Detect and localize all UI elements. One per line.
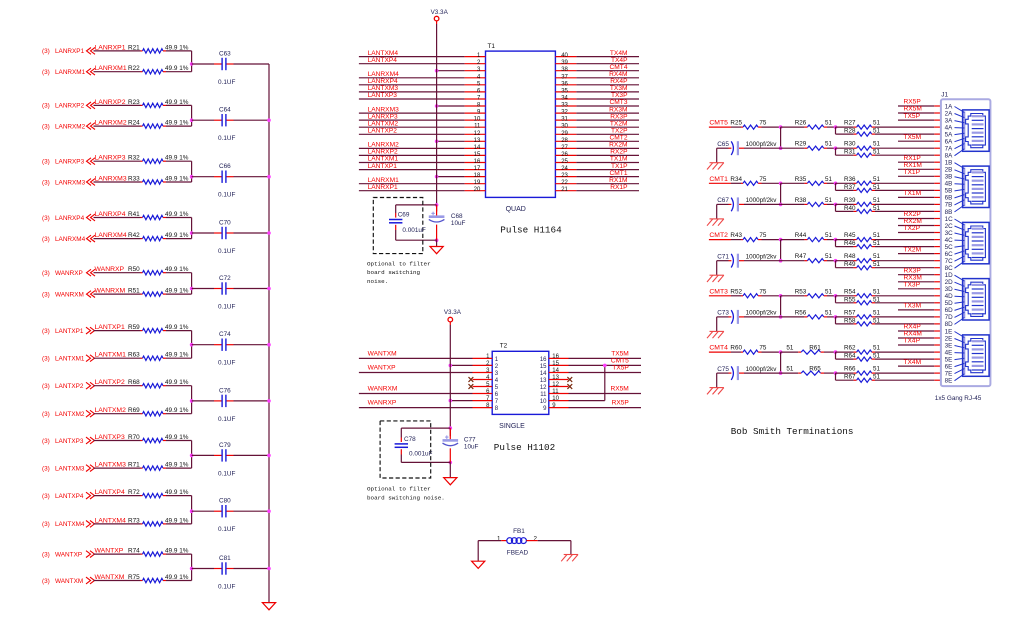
svg-text:2: 2 xyxy=(534,536,538,543)
svg-text:49.9 1%: 49.9 1% xyxy=(165,155,189,162)
svg-text:1D: 1D xyxy=(945,272,954,279)
svg-text:R29: R29 xyxy=(795,141,807,148)
svg-text:R30: R30 xyxy=(844,141,856,148)
svg-text:0.1UF: 0.1UF xyxy=(218,416,235,423)
svg-text:51: 51 xyxy=(873,296,881,303)
svg-text:C73: C73 xyxy=(717,310,729,317)
svg-text:30: 30 xyxy=(561,124,568,130)
svg-text:0.1UF: 0.1UF xyxy=(218,584,235,591)
svg-text:(3): (3) xyxy=(42,103,50,110)
svg-text:21: 21 xyxy=(561,187,568,193)
svg-text:R22: R22 xyxy=(128,65,140,72)
svg-text:49.9 1%: 49.9 1% xyxy=(165,352,189,359)
svg-text:0.1UF: 0.1UF xyxy=(218,526,235,533)
svg-text:TX5M: TX5M xyxy=(904,134,922,141)
svg-text:LANRXM3: LANRXM3 xyxy=(368,106,399,113)
svg-text:0.1UF: 0.1UF xyxy=(218,192,235,199)
svg-text:LANTXM1: LANTXM1 xyxy=(95,352,127,359)
svg-text:LANTXP3: LANTXP3 xyxy=(55,438,84,445)
svg-text:C81: C81 xyxy=(219,555,231,562)
svg-text:51: 51 xyxy=(873,120,881,127)
svg-text:LANTXM3: LANTXM3 xyxy=(368,85,399,92)
svg-text:14: 14 xyxy=(552,368,559,374)
svg-text:R27: R27 xyxy=(844,120,856,127)
svg-text:LANTXM4: LANTXM4 xyxy=(95,517,127,524)
svg-text:49.9 1%: 49.9 1% xyxy=(165,211,189,218)
svg-text:WANRXP: WANRXP xyxy=(95,266,125,273)
svg-text:10: 10 xyxy=(474,117,481,123)
svg-text:LANTXP4: LANTXP4 xyxy=(55,493,84,500)
svg-text:RX5M: RX5M xyxy=(610,386,628,393)
svg-text:49.9 1%: 49.9 1% xyxy=(165,407,189,414)
svg-text:6C: 6C xyxy=(945,251,954,258)
svg-text:TX3P: TX3P xyxy=(904,282,921,289)
svg-text:2C: 2C xyxy=(945,223,954,230)
svg-text:C72: C72 xyxy=(219,275,231,282)
svg-text:1x5 Gang RJ-45: 1x5 Gang RJ-45 xyxy=(935,395,982,402)
svg-text:51: 51 xyxy=(825,197,833,204)
svg-text:10: 10 xyxy=(552,396,559,402)
svg-text:RX4M: RX4M xyxy=(609,71,627,78)
svg-text:R39: R39 xyxy=(844,197,856,204)
svg-text:C77: C77 xyxy=(464,437,476,444)
svg-text:R41: R41 xyxy=(128,211,140,218)
svg-text:31: 31 xyxy=(561,117,568,123)
svg-text:7E: 7E xyxy=(945,370,953,377)
svg-text:R45: R45 xyxy=(844,232,856,239)
svg-text:TX2M: TX2M xyxy=(904,246,922,253)
svg-text:LANTXP3: LANTXP3 xyxy=(95,434,125,441)
svg-text:LANTXM3: LANTXM3 xyxy=(55,465,85,472)
svg-text:R42: R42 xyxy=(128,232,140,239)
svg-text:RX5M: RX5M xyxy=(904,106,922,113)
svg-text:R47: R47 xyxy=(795,253,807,260)
svg-text:R49: R49 xyxy=(844,261,856,268)
svg-text:RX4P: RX4P xyxy=(610,78,628,85)
svg-text:(3): (3) xyxy=(42,521,50,528)
svg-text:TX5P: TX5P xyxy=(904,113,921,120)
svg-text:RX4P: RX4P xyxy=(904,324,922,331)
svg-text:Optional to filter: Optional to filter xyxy=(367,261,431,268)
svg-text:RX3M: RX3M xyxy=(904,274,922,281)
svg-text:LANTXM2: LANTXM2 xyxy=(368,120,399,127)
svg-text:R56: R56 xyxy=(795,309,807,316)
svg-text:R52: R52 xyxy=(730,288,742,295)
svg-text:49.9 1%: 49.9 1% xyxy=(165,517,189,524)
svg-text:7B: 7B xyxy=(945,202,953,209)
svg-text:R51: R51 xyxy=(128,288,140,295)
svg-text:R69: R69 xyxy=(128,407,140,414)
svg-text:14: 14 xyxy=(474,145,481,151)
svg-text:CMT2: CMT2 xyxy=(709,232,728,239)
svg-text:TX2M: TX2M xyxy=(610,120,628,127)
svg-text:(3): (3) xyxy=(42,578,50,585)
svg-text:13: 13 xyxy=(540,378,547,384)
svg-text:49.9 1%: 49.9 1% xyxy=(165,120,189,127)
svg-text:(3): (3) xyxy=(42,48,50,55)
svg-text:75: 75 xyxy=(759,345,767,352)
svg-text:LANTXM2: LANTXM2 xyxy=(95,407,127,414)
svg-text:RX5P: RX5P xyxy=(612,400,630,407)
svg-text:WANTXM: WANTXM xyxy=(368,350,397,357)
svg-text:LANRXM1: LANRXM1 xyxy=(368,177,399,184)
svg-text:Pulse H1164: Pulse H1164 xyxy=(500,225,562,236)
svg-text:75: 75 xyxy=(759,288,767,295)
svg-text:15: 15 xyxy=(474,152,481,158)
svg-text:CMT5: CMT5 xyxy=(611,357,629,364)
svg-text:49.9 1%: 49.9 1% xyxy=(165,548,189,555)
svg-text:51: 51 xyxy=(825,288,833,295)
svg-text:8C: 8C xyxy=(945,265,954,272)
svg-text:R72: R72 xyxy=(128,489,140,496)
svg-text:RX2M: RX2M xyxy=(904,218,922,225)
svg-text:LANTXM3: LANTXM3 xyxy=(95,462,127,469)
svg-text:LANRXP2: LANRXP2 xyxy=(368,149,398,156)
svg-text:LANRXM3: LANRXM3 xyxy=(95,176,127,183)
svg-text:LANTXP2: LANTXP2 xyxy=(55,383,84,390)
svg-text:LANRXM1: LANRXM1 xyxy=(55,69,86,76)
svg-text:51: 51 xyxy=(873,197,881,204)
svg-text:SINGLE: SINGLE xyxy=(499,423,525,430)
svg-text:CMT4: CMT4 xyxy=(709,345,728,352)
svg-text:RX2P: RX2P xyxy=(610,149,628,156)
svg-text:13: 13 xyxy=(552,375,559,381)
svg-text:49.9 1%: 49.9 1% xyxy=(165,288,189,295)
svg-text:TX3M: TX3M xyxy=(610,85,628,92)
svg-text:4B: 4B xyxy=(945,181,953,188)
svg-text:FB1: FB1 xyxy=(513,528,525,535)
svg-text:5A: 5A xyxy=(945,131,954,138)
svg-text:R37: R37 xyxy=(844,184,856,191)
svg-text:(3): (3) xyxy=(42,328,50,335)
svg-text:51: 51 xyxy=(873,205,881,212)
svg-text:TX4M: TX4M xyxy=(904,359,922,366)
svg-text:0.1UF: 0.1UF xyxy=(218,470,235,477)
svg-text:J1: J1 xyxy=(941,92,948,99)
svg-text:1A: 1A xyxy=(945,103,954,110)
svg-text:TX2P: TX2P xyxy=(904,225,921,232)
svg-text:board switching noise.: board switching noise. xyxy=(367,494,445,501)
svg-text:CMT3: CMT3 xyxy=(709,288,728,295)
svg-text:1000pf/2kv: 1000pf/2kv xyxy=(746,197,778,204)
svg-text:1C: 1C xyxy=(945,216,954,223)
svg-text:1000pf/2kv: 1000pf/2kv xyxy=(746,254,778,261)
svg-text:TX5P: TX5P xyxy=(612,365,629,372)
svg-text:R62: R62 xyxy=(844,345,856,352)
svg-text:noise.: noise. xyxy=(367,278,388,285)
svg-text:51: 51 xyxy=(873,374,881,381)
svg-text:WANRXM: WANRXM xyxy=(368,386,398,393)
svg-text:R57: R57 xyxy=(844,309,856,316)
svg-text:51: 51 xyxy=(873,149,881,156)
svg-text:51: 51 xyxy=(873,128,881,135)
svg-text:R25: R25 xyxy=(730,120,742,127)
svg-text:TX3M: TX3M xyxy=(904,303,922,310)
svg-text:6D: 6D xyxy=(945,307,954,314)
svg-text:R23: R23 xyxy=(128,99,140,106)
svg-text:51: 51 xyxy=(873,345,881,352)
svg-text:LANTXP1: LANTXP1 xyxy=(95,324,125,331)
svg-text:36: 36 xyxy=(561,81,568,87)
svg-text:LANTXP2: LANTXP2 xyxy=(95,379,125,386)
svg-text:LANRXP3: LANRXP3 xyxy=(55,159,85,166)
svg-text:R43: R43 xyxy=(730,232,742,239)
svg-text:1E: 1E xyxy=(945,328,953,335)
svg-text:(3): (3) xyxy=(42,411,50,418)
svg-text:LANRXM4: LANRXM4 xyxy=(368,71,399,78)
svg-text:WANRXM: WANRXM xyxy=(55,291,84,298)
svg-text:RX1M: RX1M xyxy=(904,162,922,169)
svg-text:6B: 6B xyxy=(945,195,953,202)
svg-text:CMT5: CMT5 xyxy=(709,120,728,127)
svg-text:R53: R53 xyxy=(795,288,807,295)
svg-text:16: 16 xyxy=(540,357,547,363)
svg-text:(3): (3) xyxy=(42,159,50,166)
svg-text:R31: R31 xyxy=(844,149,856,156)
svg-text:C66: C66 xyxy=(219,163,231,170)
svg-text:WANTXP: WANTXP xyxy=(55,551,82,558)
svg-text:5E: 5E xyxy=(945,356,953,363)
svg-text:CMT4: CMT4 xyxy=(610,64,628,71)
svg-text:RX1M: RX1M xyxy=(609,177,627,184)
svg-text:51: 51 xyxy=(825,253,833,260)
svg-text:51: 51 xyxy=(873,232,881,239)
svg-text:R46: R46 xyxy=(844,240,856,247)
svg-text:51: 51 xyxy=(873,261,881,268)
svg-text:12: 12 xyxy=(474,131,481,137)
svg-text:0.1UF: 0.1UF xyxy=(218,79,235,86)
svg-text:R40: R40 xyxy=(844,205,856,212)
svg-text:7A: 7A xyxy=(945,146,954,153)
svg-text:4C: 4C xyxy=(945,237,954,244)
svg-text:(3): (3) xyxy=(42,383,50,390)
svg-text:LANTXP4: LANTXP4 xyxy=(95,489,125,496)
svg-text:RX3M: RX3M xyxy=(609,106,627,113)
svg-text:49.9 1%: 49.9 1% xyxy=(165,266,189,273)
svg-text:4A: 4A xyxy=(945,124,954,131)
svg-text:49.9 1%: 49.9 1% xyxy=(165,176,189,183)
svg-text:2A: 2A xyxy=(945,110,954,117)
svg-text:R36: R36 xyxy=(844,176,856,183)
svg-text:R21: R21 xyxy=(128,44,140,51)
svg-text:1000pf/2kv: 1000pf/2kv xyxy=(746,141,778,148)
svg-text:WANTXM: WANTXM xyxy=(95,574,125,581)
svg-text:26: 26 xyxy=(561,152,568,158)
svg-text:(3): (3) xyxy=(42,493,50,500)
svg-text:TX1M: TX1M xyxy=(610,156,628,163)
svg-text:LANRXM2: LANRXM2 xyxy=(368,142,399,149)
svg-text:CMT3: CMT3 xyxy=(610,99,628,106)
svg-text:51: 51 xyxy=(825,232,833,239)
svg-text:LANTXM1: LANTXM1 xyxy=(368,156,399,163)
svg-text:R32: R32 xyxy=(128,155,140,162)
svg-text:C63: C63 xyxy=(219,51,231,58)
svg-text:R61: R61 xyxy=(809,345,821,352)
svg-text:LANRXP4: LANRXP4 xyxy=(95,211,126,218)
svg-text:RX2P: RX2P xyxy=(904,211,922,218)
svg-text:(3): (3) xyxy=(42,438,50,445)
svg-text:(3): (3) xyxy=(42,215,50,222)
svg-text:(3): (3) xyxy=(42,179,50,186)
svg-text:49.9 1%: 49.9 1% xyxy=(165,379,189,386)
svg-text:5D: 5D xyxy=(945,300,954,307)
svg-text:(3): (3) xyxy=(42,551,50,558)
svg-text:RX3P: RX3P xyxy=(610,113,628,120)
svg-text:R64: R64 xyxy=(844,353,856,360)
svg-text:5C: 5C xyxy=(945,244,954,251)
svg-text:C65: C65 xyxy=(717,141,729,148)
svg-text:7C: 7C xyxy=(945,258,954,265)
svg-text:19: 19 xyxy=(474,180,481,186)
svg-text:WANRXP: WANRXP xyxy=(55,270,83,277)
svg-text:TX2P: TX2P xyxy=(611,128,628,135)
svg-text:(3): (3) xyxy=(42,69,50,76)
svg-text:LANRXM2: LANRXM2 xyxy=(95,120,127,127)
svg-text:R74: R74 xyxy=(128,548,140,555)
svg-text:WANRXP: WANRXP xyxy=(368,400,397,407)
svg-text:LANRXP1: LANRXP1 xyxy=(368,184,398,191)
svg-text:8D: 8D xyxy=(945,321,954,328)
svg-text:(3): (3) xyxy=(42,465,50,472)
svg-text:1: 1 xyxy=(497,536,501,543)
svg-text:49.9 1%: 49.9 1% xyxy=(165,44,189,51)
svg-text:18: 18 xyxy=(474,173,481,179)
svg-text:6A: 6A xyxy=(945,139,954,146)
svg-text:49.9 1%: 49.9 1% xyxy=(165,232,189,239)
svg-text:Pulse H1102: Pulse H1102 xyxy=(494,442,555,453)
svg-text:C69: C69 xyxy=(398,212,410,219)
svg-text:RX2M: RX2M xyxy=(609,142,627,149)
svg-text:C79: C79 xyxy=(219,442,231,449)
svg-text:8A: 8A xyxy=(945,153,954,160)
svg-text:49.9 1%: 49.9 1% xyxy=(165,99,189,106)
svg-text:C74: C74 xyxy=(219,331,231,338)
svg-text:Bob Smith Terminations: Bob Smith Terminations xyxy=(731,426,854,437)
svg-text:22: 22 xyxy=(561,180,568,186)
svg-text:49.9 1%: 49.9 1% xyxy=(165,574,189,581)
svg-text:R34: R34 xyxy=(730,176,742,183)
svg-text:LANRXP1: LANRXP1 xyxy=(95,44,126,51)
svg-text:34: 34 xyxy=(561,96,568,102)
svg-text:LANTXP4: LANTXP4 xyxy=(368,57,398,64)
svg-text:51: 51 xyxy=(873,176,881,183)
svg-text:RX1P: RX1P xyxy=(904,155,922,162)
svg-text:29: 29 xyxy=(561,131,568,137)
svg-text:51: 51 xyxy=(873,240,881,247)
svg-text:1000pf/2kv: 1000pf/2kv xyxy=(746,366,778,373)
svg-text:5B: 5B xyxy=(945,188,953,195)
svg-text:51: 51 xyxy=(873,288,881,295)
svg-text:LANTXP1: LANTXP1 xyxy=(368,163,398,170)
svg-text:49.9 1%: 49.9 1% xyxy=(165,324,189,331)
svg-text:49.9 1%: 49.9 1% xyxy=(165,65,189,72)
svg-text:CMT1: CMT1 xyxy=(610,170,628,177)
svg-text:LANTXM1: LANTXM1 xyxy=(55,356,85,363)
svg-text:R73: R73 xyxy=(128,517,140,524)
svg-text:17: 17 xyxy=(474,166,481,172)
svg-text:32: 32 xyxy=(561,110,568,116)
svg-text:3B: 3B xyxy=(945,174,953,181)
svg-text:49.9 1%: 49.9 1% xyxy=(165,489,189,496)
svg-text:23: 23 xyxy=(561,173,568,179)
svg-text:51: 51 xyxy=(786,366,794,373)
svg-text:R60: R60 xyxy=(730,345,742,352)
svg-text:51: 51 xyxy=(873,253,881,260)
svg-text:R28: R28 xyxy=(844,128,856,135)
svg-text:R26: R26 xyxy=(795,120,807,127)
svg-text:T1: T1 xyxy=(488,43,496,50)
svg-text:51: 51 xyxy=(873,366,881,373)
svg-text:LANTXM2: LANTXM2 xyxy=(55,411,85,418)
svg-text:LANRXM3: LANRXM3 xyxy=(55,179,86,186)
svg-text:LANRXM4: LANRXM4 xyxy=(95,232,127,239)
svg-text:LANRXP1: LANRXP1 xyxy=(55,48,85,55)
svg-text:(3): (3) xyxy=(42,291,50,298)
svg-text:51: 51 xyxy=(825,120,833,127)
svg-text:LANRXM4: LANRXM4 xyxy=(55,236,86,243)
svg-text:15: 15 xyxy=(552,361,559,367)
svg-text:FBEAD: FBEAD xyxy=(507,549,529,556)
svg-text:TX4M: TX4M xyxy=(610,50,628,57)
svg-text:1B: 1B xyxy=(945,160,953,167)
svg-text:C64: C64 xyxy=(219,107,231,114)
svg-text:TX3P: TX3P xyxy=(611,92,628,99)
svg-text:CMT2: CMT2 xyxy=(610,135,628,142)
svg-text:11: 11 xyxy=(552,389,559,395)
svg-text:LANRXP4: LANRXP4 xyxy=(55,215,85,222)
svg-text:51: 51 xyxy=(873,184,881,191)
svg-text:TX1P: TX1P xyxy=(611,163,628,170)
svg-text:3D: 3D xyxy=(945,286,954,293)
svg-text:TX1M: TX1M xyxy=(904,190,922,197)
svg-text:51: 51 xyxy=(873,353,881,360)
svg-text:4D: 4D xyxy=(945,293,954,300)
svg-text:C75: C75 xyxy=(717,366,729,373)
svg-text:75: 75 xyxy=(759,232,767,239)
svg-text:20: 20 xyxy=(474,187,481,193)
svg-text:51: 51 xyxy=(873,317,881,324)
svg-text:15: 15 xyxy=(540,364,547,370)
svg-text:R71: R71 xyxy=(128,462,140,469)
svg-text:38: 38 xyxy=(561,67,568,73)
svg-text:(3): (3) xyxy=(42,270,50,277)
svg-text:75: 75 xyxy=(759,120,767,127)
svg-text:R65: R65 xyxy=(809,366,821,373)
svg-text:25: 25 xyxy=(561,159,568,165)
svg-text:R63: R63 xyxy=(128,352,140,359)
svg-text:Optional to filter: Optional to filter xyxy=(367,486,431,493)
svg-text:C71: C71 xyxy=(717,254,729,261)
svg-text:R66: R66 xyxy=(844,366,856,373)
svg-text:LANRXP2: LANRXP2 xyxy=(55,103,85,110)
svg-text:0.001uF: 0.001uF xyxy=(409,450,433,457)
svg-text:C78: C78 xyxy=(404,436,416,443)
svg-text:51: 51 xyxy=(825,309,833,316)
svg-text:10uF: 10uF xyxy=(464,444,479,451)
svg-text:39: 39 xyxy=(561,60,568,66)
svg-text:CMT1: CMT1 xyxy=(709,176,728,183)
svg-text:51: 51 xyxy=(825,141,833,148)
svg-text:R50: R50 xyxy=(128,266,140,273)
svg-text:16: 16 xyxy=(552,354,559,360)
svg-text:49.9 1%: 49.9 1% xyxy=(165,434,189,441)
svg-text:RX4M: RX4M xyxy=(904,331,922,338)
svg-text:LANTXM4: LANTXM4 xyxy=(55,521,85,528)
svg-text:10uF: 10uF xyxy=(451,220,466,227)
svg-text:(3): (3) xyxy=(42,123,50,130)
svg-text:C76: C76 xyxy=(219,387,231,394)
svg-text:3A: 3A xyxy=(945,117,954,124)
